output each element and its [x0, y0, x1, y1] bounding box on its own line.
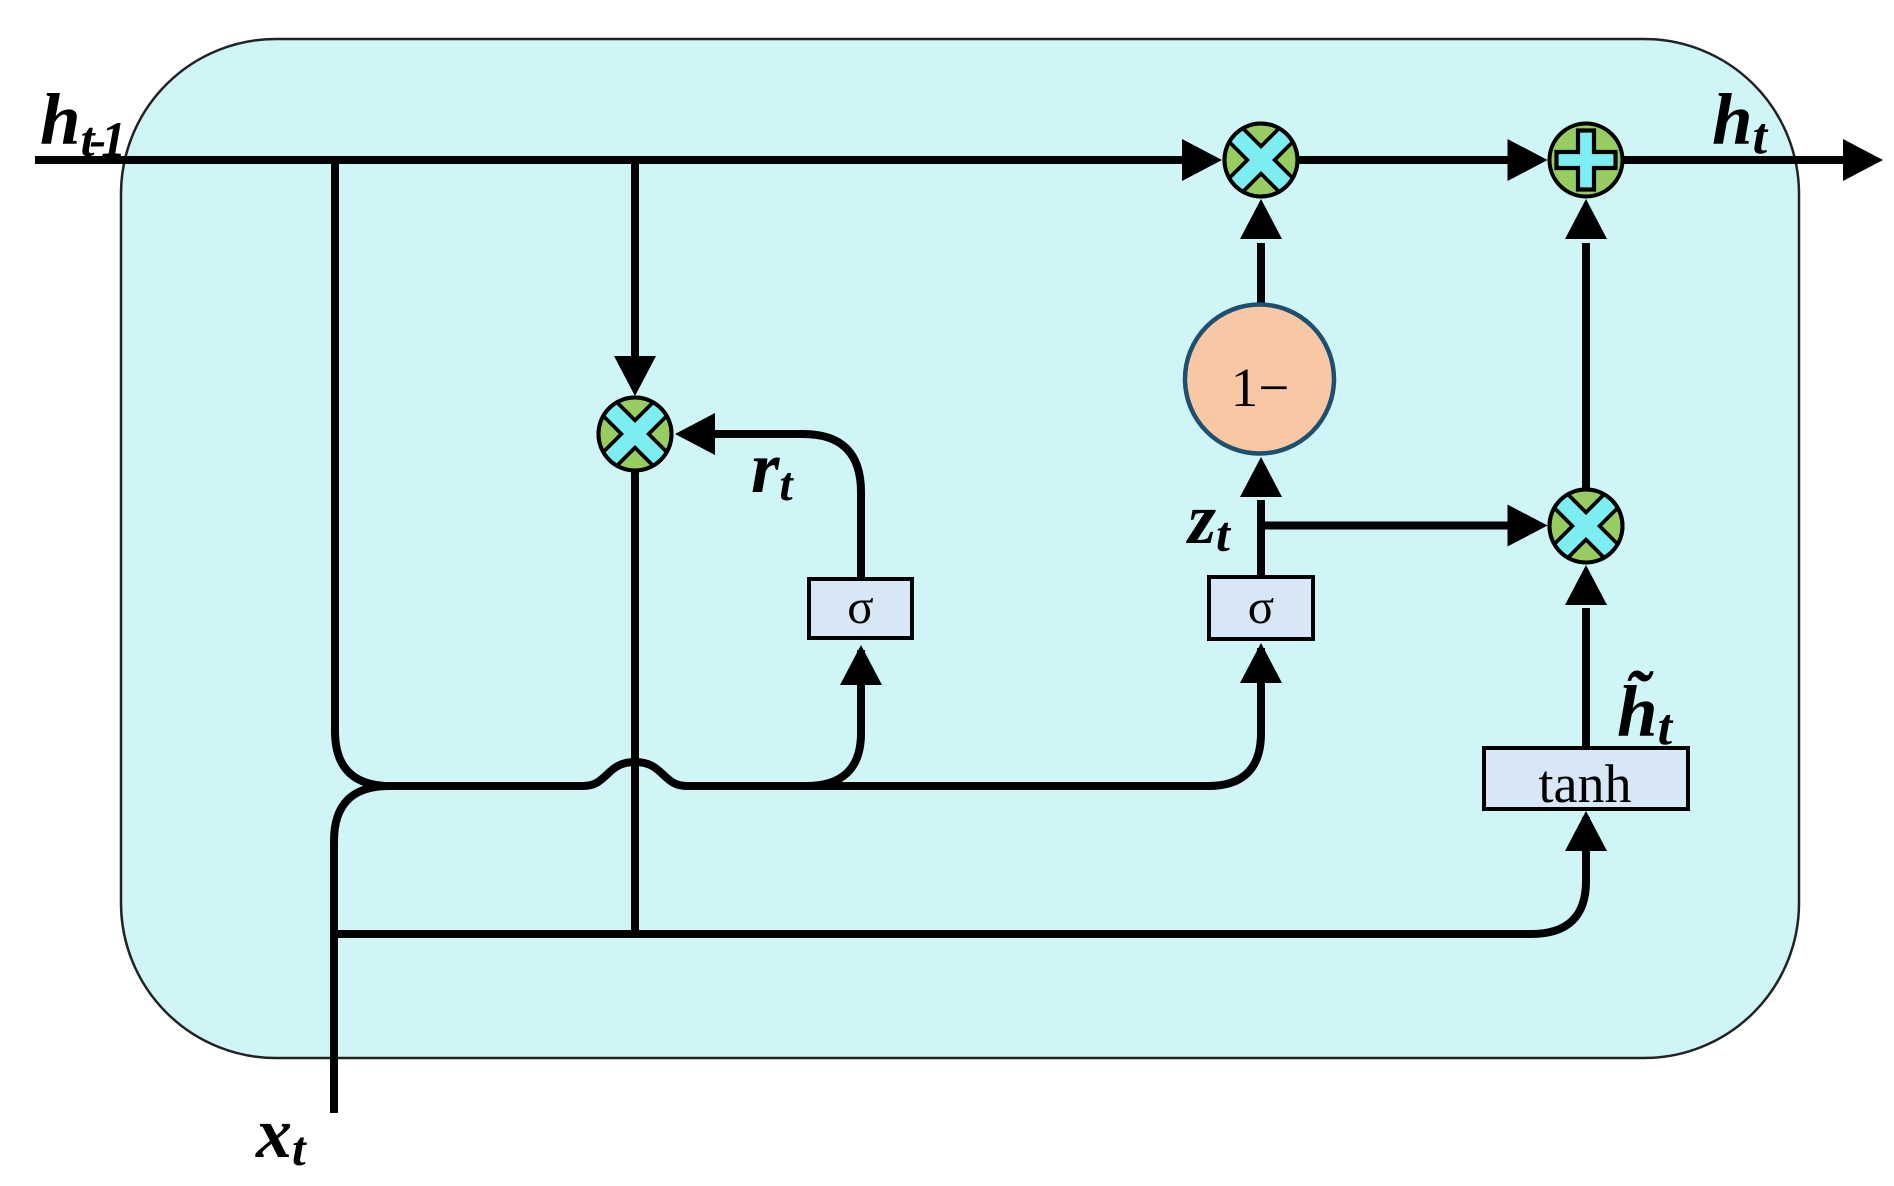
- svg-text:σ: σ: [1248, 579, 1274, 634]
- svg-text:tanh: tanh: [1539, 754, 1632, 814]
- svg-text:ht-1: ht-1: [40, 79, 121, 167]
- svg-text:1−: 1−: [1231, 357, 1290, 418]
- svg-text:xt: xt: [255, 1093, 307, 1176]
- svg-text:σ: σ: [847, 579, 873, 634]
